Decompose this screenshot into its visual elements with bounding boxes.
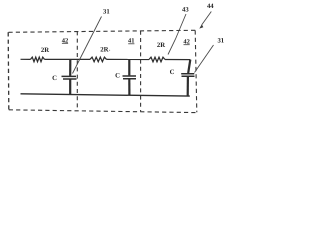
capacitor C1 bottom lead <box>69 80 71 95</box>
leader line label 44 arrow <box>202 12 212 25</box>
svg-text:31: 31 <box>217 38 224 45</box>
svg-text:43: 43 <box>182 7 189 14</box>
svg-text:2R: 2R <box>41 47 49 54</box>
capacitor C2 plates <box>123 76 137 79</box>
capacitor C3 bottom lead <box>187 77 189 96</box>
dashed box bottom border <box>9 110 197 113</box>
svg-text:C: C <box>52 75 57 82</box>
wire segment node 41 <box>107 58 150 60</box>
wire segment to output corner <box>165 59 190 61</box>
dashed divider node 41 section <box>140 31 142 112</box>
capacitor C3 plates <box>181 74 194 77</box>
dashed divider node 42 section <box>76 31 78 110</box>
capacitor C1 plates <box>62 76 77 79</box>
bottom rail wire <box>21 94 190 96</box>
svg-text:2R: 2R <box>100 47 108 54</box>
dashed box left border <box>7 32 10 110</box>
capacitor C2 bottom lead <box>128 79 130 95</box>
leader line label 31 to capacitor C3 <box>195 45 214 73</box>
svg-text:31: 31 <box>103 9 110 16</box>
svg-text:C: C <box>115 73 120 80</box>
dashed box right border <box>195 30 197 112</box>
wire input lead left <box>21 58 31 60</box>
speck after label 2R resistor R2 <box>109 50 110 51</box>
leader line label 43 to resistor R3 section <box>168 14 186 55</box>
arrowhead of label 44 pointing to box corner <box>199 24 203 28</box>
resistor R1 2R <box>31 57 45 62</box>
svg-text:2R: 2R <box>157 42 165 49</box>
capacitor C2 top lead <box>128 59 130 75</box>
resistor R3 2R <box>149 57 165 62</box>
capacitor C1 top lead <box>69 59 71 76</box>
leader line label 31 to capacitor C1 <box>73 17 102 74</box>
svg-text:44: 44 <box>207 3 214 10</box>
resistor R2 2R <box>90 57 107 62</box>
dashed box top border <box>9 30 197 32</box>
capacitor C3 top lead <box>188 60 190 74</box>
svg-text:C: C <box>170 69 175 76</box>
wire segment node 42 <box>45 58 91 60</box>
